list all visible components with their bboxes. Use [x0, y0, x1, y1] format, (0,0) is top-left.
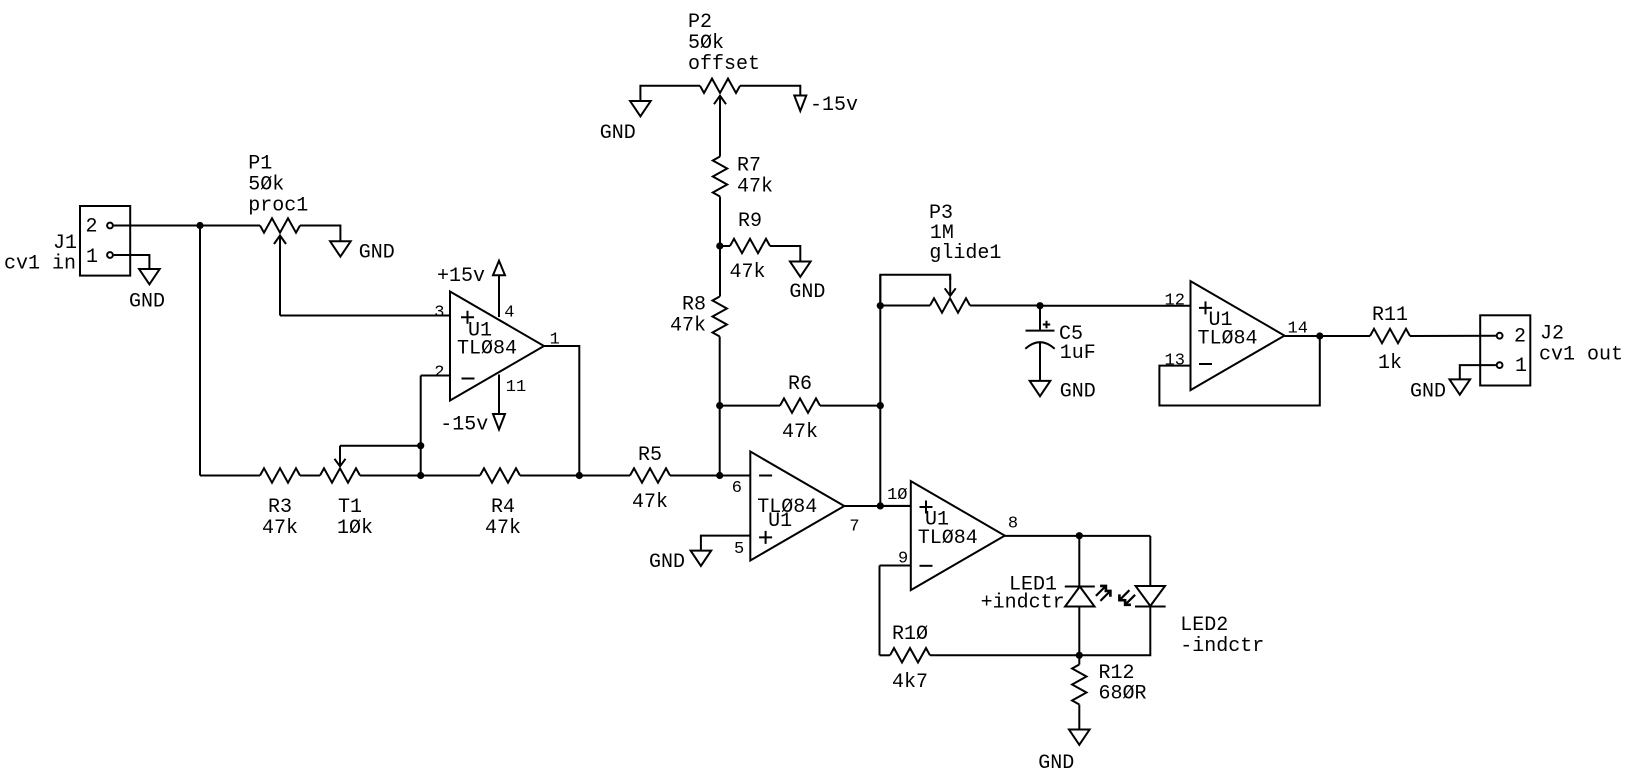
svg-text:R7: R7 [737, 155, 761, 178]
svg-text:-15v: -15v [810, 94, 858, 117]
wire input bus segment [200, 475, 260, 477]
svg-text:R11: R11 [1372, 304, 1408, 327]
svg-text:1k: 1k [1378, 352, 1402, 375]
resistor R10 [890, 623, 930, 694]
svg-text:LED2: LED2 [1180, 614, 1228, 637]
node E junction [716, 472, 723, 479]
svg-text:4k7: 4k7 [892, 671, 928, 694]
wire R12 to ground [1078, 705, 1080, 730]
svg-text:3: 3 [434, 304, 444, 323]
ground U1B pin5 [649, 551, 711, 574]
wire U1A output to node D [544, 346, 579, 476]
wire R11 to J2 pin2 [1410, 335, 1496, 337]
svg-text:1: 1 [1515, 355, 1527, 378]
svg-text:offset: offset [688, 53, 760, 76]
wire J1 pin1 to ground [114, 255, 150, 269]
wire R10 to node N [930, 654, 1079, 656]
wire J1 pin2 to node A [114, 225, 260, 227]
svg-text:11: 11 [506, 378, 526, 397]
op-amp U1 gate B [732, 452, 860, 561]
svg-text:R8: R8 [682, 294, 706, 317]
wire P2 left to ground [640, 86, 700, 101]
ground P2 [600, 101, 651, 145]
node N junction [1076, 652, 1083, 659]
svg-text:glide1: glide1 [929, 242, 1001, 265]
svg-text:R4: R4 [491, 496, 515, 519]
wire U1A pin2 [421, 375, 450, 377]
svg-text:6: 6 [732, 479, 742, 498]
wire node F to R9 [720, 245, 730, 247]
wire R4 to R5 [520, 475, 630, 477]
svg-text:2: 2 [1514, 326, 1526, 349]
wire LED2 to node N [1079, 607, 1150, 656]
svg-text:47k: 47k [485, 517, 521, 540]
wire U1C output pin8 [1005, 535, 1151, 537]
P3 wiper arrow [949, 276, 951, 296]
svg-text:5: 5 [734, 540, 744, 559]
svg-text:1Ø: 1Ø [887, 486, 907, 505]
node I junction (pin7) [877, 502, 884, 509]
resistor R9 [730, 210, 771, 284]
wire node I to U1C pin10 [880, 505, 911, 507]
svg-text:R6: R6 [788, 373, 812, 396]
svg-text:1Øk: 1Øk [337, 517, 373, 540]
svg-text:5Øk: 5Øk [688, 32, 724, 55]
svg-text:5Øk: 5Øk [248, 174, 284, 197]
potentiometer P1 [248, 153, 308, 233]
wire node M to LED1 [1078, 536, 1080, 587]
P3 wiper loop [880, 275, 950, 306]
wire T1 wiper to node B [340, 445, 421, 447]
resistor R6 [780, 373, 820, 444]
wire U1D pin13 feedback [1159, 336, 1319, 406]
node K junction (C5 top) [1036, 302, 1043, 309]
ground J2 [1410, 379, 1470, 403]
T1 wiper arrow [339, 446, 341, 467]
ground C5 [1030, 381, 1096, 404]
svg-text:T1: T1 [338, 496, 362, 519]
svg-text:GND: GND [129, 291, 165, 314]
wire R3 to T1 [300, 475, 320, 477]
svg-text:cv1 out: cv1 out [1539, 344, 1623, 367]
wire U1B output pin7 [844, 505, 911, 507]
svg-text:47k: 47k [632, 491, 668, 514]
svg-text:GND: GND [600, 122, 636, 145]
node B junction [417, 442, 424, 449]
node G junction (R6 left) [716, 402, 723, 409]
svg-text:2: 2 [434, 364, 444, 383]
resistor R3 [260, 468, 300, 540]
op-amp U1 gate A [434, 292, 560, 401]
node J junction (P3 left) [877, 302, 884, 309]
node A junction [196, 222, 203, 229]
svg-text:TLØ84: TLØ84 [918, 527, 978, 550]
power -15v U1A [440, 375, 526, 437]
wire pin9 to R10 [880, 654, 891, 656]
ground R9 [789, 262, 825, 305]
svg-text:1: 1 [86, 246, 98, 269]
svg-text:GND: GND [1410, 381, 1446, 404]
node C junction [417, 472, 424, 479]
svg-text:J2: J2 [1540, 323, 1564, 346]
resistor R4 [480, 468, 521, 540]
wire R6 to node H [820, 405, 880, 407]
svg-text:47k: 47k [737, 176, 773, 199]
svg-text:+indctr: +indctr [981, 592, 1065, 615]
resistor R12 [1072, 662, 1146, 706]
svg-text:1uF: 1uF [1060, 342, 1096, 365]
svg-text:GND: GND [1038, 752, 1074, 775]
resistor R8 [670, 294, 727, 338]
svg-text:R3: R3 [268, 496, 292, 519]
svg-text:4: 4 [504, 304, 514, 323]
capacitor C5 [1025, 306, 1096, 381]
wire node K to U1D pin12 [1040, 305, 1191, 307]
potentiometer P2 [688, 11, 760, 93]
resistor R5 [630, 444, 670, 514]
svg-text:GND: GND [649, 551, 685, 574]
wire node A down to input bus [199, 226, 201, 476]
svg-text:R1Ø: R1Ø [892, 623, 928, 646]
svg-text:68ØR: 68ØR [1099, 683, 1147, 706]
wire P3 left [880, 305, 930, 307]
wire node G to R6 [720, 405, 780, 407]
svg-text:P2: P2 [688, 11, 712, 34]
node D junction (U1A output) [576, 472, 583, 479]
svg-text:TLØ84: TLØ84 [457, 338, 517, 361]
svg-text:TLØ84: TLØ84 [1198, 327, 1258, 350]
svg-text:proc1: proc1 [248, 195, 308, 218]
resistor R11 [1370, 304, 1410, 375]
svg-text:13: 13 [1165, 352, 1185, 371]
wire P3 right to node K [970, 305, 1040, 307]
LED LED1 [981, 574, 1111, 615]
svg-text:12: 12 [1165, 292, 1185, 311]
svg-text:47k: 47k [730, 261, 766, 284]
ground R12 [1038, 730, 1089, 776]
ground J1 [129, 269, 165, 314]
wire U1C pin9 [880, 565, 911, 567]
op-amp U1 gate D [1165, 281, 1308, 390]
wire LED1 to node N [1078, 607, 1080, 656]
svg-text:47k: 47k [782, 421, 818, 444]
P1 wiper arrow [279, 236, 281, 316]
svg-text:-indctr: -indctr [1180, 635, 1264, 658]
P2 wiper arrow [719, 96, 721, 157]
wire R9 to ground [770, 246, 800, 262]
svg-text:U1: U1 [768, 510, 792, 533]
wire node F to R8 [719, 246, 721, 297]
wire P2 right to -15v [740, 86, 800, 96]
wire J2 pin1 to ground [1460, 365, 1496, 379]
svg-text:2: 2 [86, 216, 98, 239]
op-amp U1 gate C [887, 481, 1018, 590]
wire T1 to R4 [360, 475, 480, 477]
power -15v P2 [794, 94, 858, 117]
trimmer T1 [320, 468, 373, 540]
ground P1 [330, 241, 395, 264]
svg-text:-15v: -15v [440, 414, 488, 437]
wire node N to R12 [1078, 655, 1080, 664]
svg-text:+15v: +15v [437, 265, 485, 288]
connector J2 [1480, 315, 1623, 385]
power +15v U1A [437, 261, 514, 323]
connector J1 [4, 206, 130, 276]
svg-text:R9: R9 [738, 210, 762, 233]
LED LED2 [1119, 586, 1264, 658]
svg-text:R5: R5 [638, 444, 662, 467]
node H junction (R6 right) [877, 402, 884, 409]
wire node J down to node H [879, 275, 881, 406]
wire R7 to node F [719, 197, 721, 247]
svg-text:47k: 47k [670, 315, 706, 338]
wire P1 wiper to U1A pin3 [280, 315, 450, 317]
svg-text:cv1 in: cv1 in [4, 253, 76, 276]
potentiometer P3 [929, 202, 1001, 313]
wire node G to node E [719, 406, 721, 476]
wire U1D output to R11 [1285, 335, 1371, 337]
svg-text:GND: GND [359, 242, 395, 265]
wire P1 right to ground [300, 226, 340, 242]
node L junction (U1D out) [1316, 332, 1323, 339]
resistor R7 [713, 155, 773, 199]
wire node H to node I [879, 406, 881, 506]
svg-text:47k: 47k [262, 517, 298, 540]
node F junction [716, 242, 723, 249]
wire R8 to node G [719, 337, 721, 406]
svg-text:P1: P1 [248, 153, 272, 176]
wire node B to node C to U1A pin2 [420, 376, 422, 476]
node M junction (LED top) [1076, 532, 1083, 539]
svg-text:GND: GND [1060, 381, 1096, 404]
wire U1B pin5 to ground [701, 536, 750, 551]
wire R5 to node E [670, 475, 750, 477]
wire U1C pin9 down to R10 [879, 566, 881, 656]
svg-text:7: 7 [849, 518, 859, 537]
wire node M to LED2 [1149, 536, 1151, 586]
svg-text:8: 8 [1008, 515, 1018, 534]
svg-text:GND: GND [789, 281, 825, 304]
